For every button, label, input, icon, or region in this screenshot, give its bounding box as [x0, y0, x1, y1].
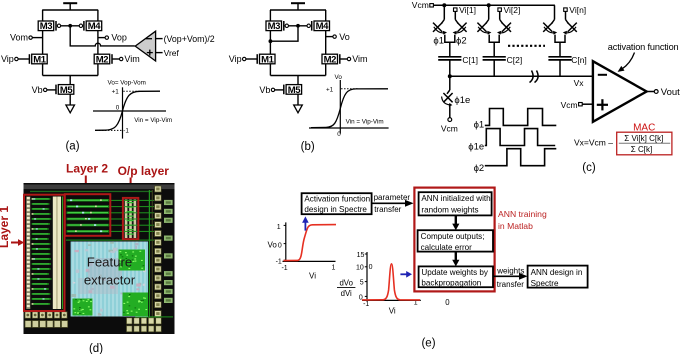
ground symbol [294, 105, 303, 113]
svg-text:Feature: Feature [87, 255, 132, 270]
svg-text:transfer: transfer [497, 280, 524, 289]
svg-text:M2: M2 [324, 54, 337, 65]
switch phi2 (branch Vi[n]) [563, 23, 577, 35]
svg-text:0: 0 [116, 105, 120, 112]
svg-text:Vim: Vim [352, 54, 367, 64]
plot: dVo/dVi derivative (Matlab) [337, 252, 421, 316]
svg-text:10: 10 [356, 264, 364, 271]
switch phi2 (branch Vi[2]) [497, 23, 511, 35]
svg-text:Vo= Vop-Vom: Vo= Vop-Vom [108, 80, 146, 87]
svg-text:+1: +1 [112, 89, 120, 96]
ground symbol [66, 105, 75, 113]
svg-text:15: 15 [357, 252, 365, 259]
svg-text:ANN initialized with: ANN initialized with [421, 194, 490, 203]
break symbol on bus [530, 71, 539, 83]
wire: M3/M4 gate node [61, 24, 80, 28]
svg-text:Vo: Vo [267, 240, 277, 249]
svg-text:Vop: Vop [111, 33, 127, 43]
transistor M4 (b) [307, 21, 330, 32]
svg-text:ϕ1: ϕ1 [433, 36, 444, 47]
svg-text:random weights: random weights [421, 206, 478, 215]
wire: M3 drain to M1 drain [42, 31, 44, 55]
node: rail junction (branch Vi[1]) [442, 3, 447, 23]
wire: switch outputs join (branch Vi[1]) [445, 35, 455, 57]
wire: bottom summing bus to op-amp (node Vx) [448, 74, 593, 78]
waveform phi1 [474, 109, 557, 131]
wire: input to switch (branch Vi[n]) [566, 11, 569, 23]
box: Compute outputs; calculate error [418, 230, 493, 252]
wire: rail corner to switch (Vcm side, branch Vi[n]) [552, 5, 555, 23]
svg-text:M3: M3 [40, 21, 53, 32]
arrow: blue up (parameter into design) [302, 216, 309, 230]
svg-text:1: 1 [331, 265, 335, 272]
svg-text:(a): (a) [65, 140, 79, 152]
wire: CMFB output to M3/M4 gates (hop over drain wire) [70, 26, 135, 46]
capacitor C1 [438, 55, 478, 76]
dots: continuation between branches [508, 45, 545, 47]
svg-text:Vx: Vx [574, 78, 585, 88]
terminal Vip [229, 54, 257, 64]
svg-text:ϕ2: ϕ2 [456, 36, 467, 47]
terminal Vim [340, 54, 367, 64]
svg-text:+1: +1 [326, 86, 334, 93]
label: ANN training in Matlab [498, 209, 547, 231]
red outline: ANN training in Matlab group [414, 188, 494, 292]
arrow: to ANN init [372, 200, 414, 207]
wire: diode connection M3 gate to M3 drain [269, 26, 299, 43]
VDD supply bar [63, 3, 77, 10]
wire: switch outputs join (branch Vi[n]) [555, 35, 565, 57]
red outline: Layer 1 region [24, 195, 65, 311]
svg-text:M3: M3 [268, 21, 281, 32]
node: rail junction (branch Vi[2]) [486, 3, 491, 23]
svg-text:Update weights by: Update weights by [421, 268, 489, 277]
waveform phi2 [474, 149, 557, 174]
box: ANN initialized with random weights [419, 192, 492, 215]
VDD supply bar [291, 3, 305, 10]
terminal Vcm (top left) [412, 0, 434, 10]
wire: M3/M4 gate node [289, 24, 308, 28]
svg-text:parameter: parameter [374, 193, 411, 202]
transistor M1 (b) [257, 54, 275, 65]
terminal Vom [10, 33, 43, 43]
transistor M3 (a) [38, 21, 61, 32]
svg-text:Vo: Vo [339, 32, 350, 42]
wire: switch outputs join (branch Vi[2]) [489, 35, 499, 57]
chip die photo [24, 183, 175, 334]
svg-text:M2: M2 [96, 54, 109, 65]
svg-text:ANN training: ANN training [498, 209, 547, 219]
svg-text:Vip: Vip [229, 54, 242, 64]
svg-text:M5: M5 [60, 85, 74, 96]
svg-text:Vcm: Vcm [412, 0, 429, 10]
label Layer 2 with arrow [66, 162, 108, 195]
arrow: init to compute [452, 215, 459, 230]
svg-text:Vcm: Vcm [561, 100, 578, 110]
terminal Vi[n] [564, 5, 586, 15]
svg-text:Layer 2: Layer 2 [66, 162, 108, 176]
svg-text:Vref: Vref [164, 48, 180, 58]
svg-text:transfer: transfer [374, 205, 401, 214]
terminal Vcm (plus input) [561, 100, 593, 110]
op-amp U2: activation function amplifier [593, 61, 647, 122]
wire: M4 drain to M2 drain [325, 31, 327, 55]
svg-text:Vi[n]: Vi[n] [569, 5, 586, 15]
svg-text:M1: M1 [33, 54, 47, 65]
svg-text:Vom: Vom [10, 33, 28, 43]
svg-text:-1: -1 [363, 301, 369, 308]
svg-text:Spectre: Spectre [531, 279, 559, 288]
switch phi1e [442, 76, 453, 117]
svg-text:M5: M5 [288, 85, 302, 96]
transistor M3 (b) [266, 21, 288, 32]
wire: sources of M1/M2 to tail node [43, 64, 98, 85]
terminal Vcm (bottom) [441, 118, 458, 134]
svg-text:M4: M4 [88, 21, 102, 32]
wire: top rail [270, 10, 326, 21]
node Vref input [156, 48, 180, 58]
transistor M5 (b) [284, 85, 302, 96]
svg-text:C[n]: C[n] [571, 55, 587, 65]
terminal Vip [1, 54, 29, 64]
svg-text:ϕ1e: ϕ1e [454, 95, 470, 106]
arrow: blue right (curves into training) [400, 271, 412, 278]
box: ANN design in Spectre [528, 266, 588, 288]
svg-text:Vb: Vb [259, 85, 270, 95]
svg-text:Vx=Vcm –: Vx=Vcm – [574, 137, 613, 147]
svg-text:ϕ1e: ϕ1e [468, 142, 484, 153]
svg-text:calculate error: calculate error [421, 243, 473, 252]
capacitor C2 [483, 55, 523, 76]
svg-text:0: 0 [278, 242, 282, 249]
svg-text:C[1]: C[1] [462, 55, 478, 65]
terminal Vo [326, 32, 350, 42]
terminal Vb [32, 85, 56, 95]
svg-text:0: 0 [445, 298, 450, 307]
svg-text:-1: -1 [281, 265, 287, 272]
terminal Vop [98, 33, 127, 43]
svg-text:Compute outputs;: Compute outputs; [421, 232, 485, 241]
svg-text:5: 5 [360, 279, 364, 286]
label O/p layer with arrow [118, 164, 170, 197]
waveform phi1e [468, 129, 555, 153]
svg-text:Vo: Vo [335, 74, 343, 81]
switch phi1 (branch Vi[1]) [433, 23, 447, 35]
svg-text:M1: M1 [261, 54, 275, 65]
svg-text:-1: -1 [123, 127, 129, 134]
inset plot: transfer curve (b) [309, 74, 389, 138]
label: parameter transfer [374, 193, 411, 214]
terminal Vi[2] [498, 5, 520, 15]
svg-text:ANN design in: ANN design in [531, 268, 583, 277]
switch phi1 (branch Vi[2]) [477, 23, 491, 35]
wire: M4 drain to M2 drain [97, 31, 99, 55]
svg-text:Vim: Vim [124, 54, 139, 64]
op-amp U1: common-mode feedback amplifier [135, 31, 155, 61]
svg-text:extractor: extractor [84, 273, 136, 288]
svg-text:M4: M4 [316, 21, 330, 32]
svg-text:Vip: Vip [1, 54, 14, 64]
wire: sources of M1/M2 to tail node [270, 64, 325, 85]
capacitor Cn [548, 55, 586, 76]
svg-text:dVi: dVi [341, 289, 352, 298]
svg-text:(Vop+Vom)/2: (Vop+Vom)/2 [164, 34, 215, 44]
transistor M4 (a) [79, 21, 101, 32]
arrow: compute to update [452, 252, 459, 267]
svg-text:Vout: Vout [661, 87, 680, 98]
svg-text:ϕ2: ϕ2 [474, 163, 485, 174]
label Layer 1 with arrow [0, 206, 24, 248]
transistor M5 (a) [56, 85, 74, 96]
svg-text:C[2]: C[2] [507, 55, 523, 65]
red outline: O/p layer region [123, 198, 138, 239]
svg-text:(c): (c) [582, 162, 596, 174]
svg-text:backpropagation: backpropagation [421, 278, 481, 287]
svg-text:Layer 1: Layer 1 [0, 206, 11, 248]
svg-text:in Matlab: in Matlab [498, 221, 533, 231]
transistor M2 (a) [94, 54, 112, 65]
transistor M2 (b) [322, 54, 340, 65]
box: Activation function design in Spectre [302, 193, 372, 214]
svg-text:design in Spectre: design in Spectre [304, 205, 367, 214]
svg-text:ϕ1: ϕ1 [474, 119, 485, 130]
wire: M3 drain to M1 drain [269, 31, 271, 55]
box: Update weights by backpropagation [419, 266, 493, 287]
inset plot: differential transfer curve (a) [93, 80, 172, 139]
svg-text:Σ Vi[k] C[k]: Σ Vi[k] C[k] [624, 134, 663, 143]
MAC equation box [617, 132, 672, 155]
svg-text:Activation function: Activation function [304, 195, 370, 204]
transistor M1 (a) [29, 54, 47, 65]
svg-text:Vi: Vi [389, 307, 396, 316]
terminal Vim [113, 54, 140, 64]
label: weights transfer [496, 266, 524, 289]
svg-text:(e): (e) [421, 338, 435, 350]
svg-text:Vi[1]: Vi[1] [459, 5, 476, 15]
terminal Vb [259, 85, 283, 95]
arrow: update to ANN design [493, 273, 528, 280]
svg-text:Vin = Vip-Vim: Vin = Vip-Vim [134, 117, 172, 124]
svg-text:Vin = Vip-Vim: Vin = Vip-Vim [346, 119, 384, 126]
terminal Vi[1] [454, 5, 476, 15]
plot: Vo sigmoid (Matlab) [267, 222, 336, 280]
svg-text:Vcm: Vcm [441, 124, 458, 134]
svg-text:Vi[2]: Vi[2] [504, 5, 521, 15]
svg-text:1: 1 [277, 224, 281, 231]
switch phi2 (branch Vi[1]) [453, 23, 467, 35]
svg-text:(d): (d) [89, 343, 103, 354]
wire: input to switch (branch Vi[1]) [455, 11, 458, 23]
svg-text:O/p layer: O/p layer [118, 164, 170, 178]
svg-text:0: 0 [369, 264, 373, 271]
svg-text:(b): (b) [301, 141, 315, 153]
svg-text:activation function: activation function [608, 42, 679, 52]
terminal Vout [647, 87, 681, 98]
svg-text:0: 0 [337, 131, 341, 138]
svg-text:dVo: dVo [339, 278, 353, 287]
svg-text:Vb: Vb [32, 85, 43, 95]
wire: M5 source to ground [69, 94, 71, 105]
svg-text:Vi: Vi [309, 271, 316, 280]
wire: M5 source to ground [297, 94, 299, 105]
switch phi1 (branch Vi[n]) [543, 23, 557, 35]
label: activation function with arrow [608, 42, 679, 72]
wire: top rail [42, 10, 98, 21]
wire: Vcm top rail [433, 4, 555, 6]
node (Vop+Vom)/2 input [156, 34, 215, 44]
red outline: Layer 2 region [65, 194, 111, 236]
svg-text:Σ C[k]: Σ C[k] [631, 145, 652, 154]
wire: input to switch (branch Vi[2]) [500, 11, 503, 23]
